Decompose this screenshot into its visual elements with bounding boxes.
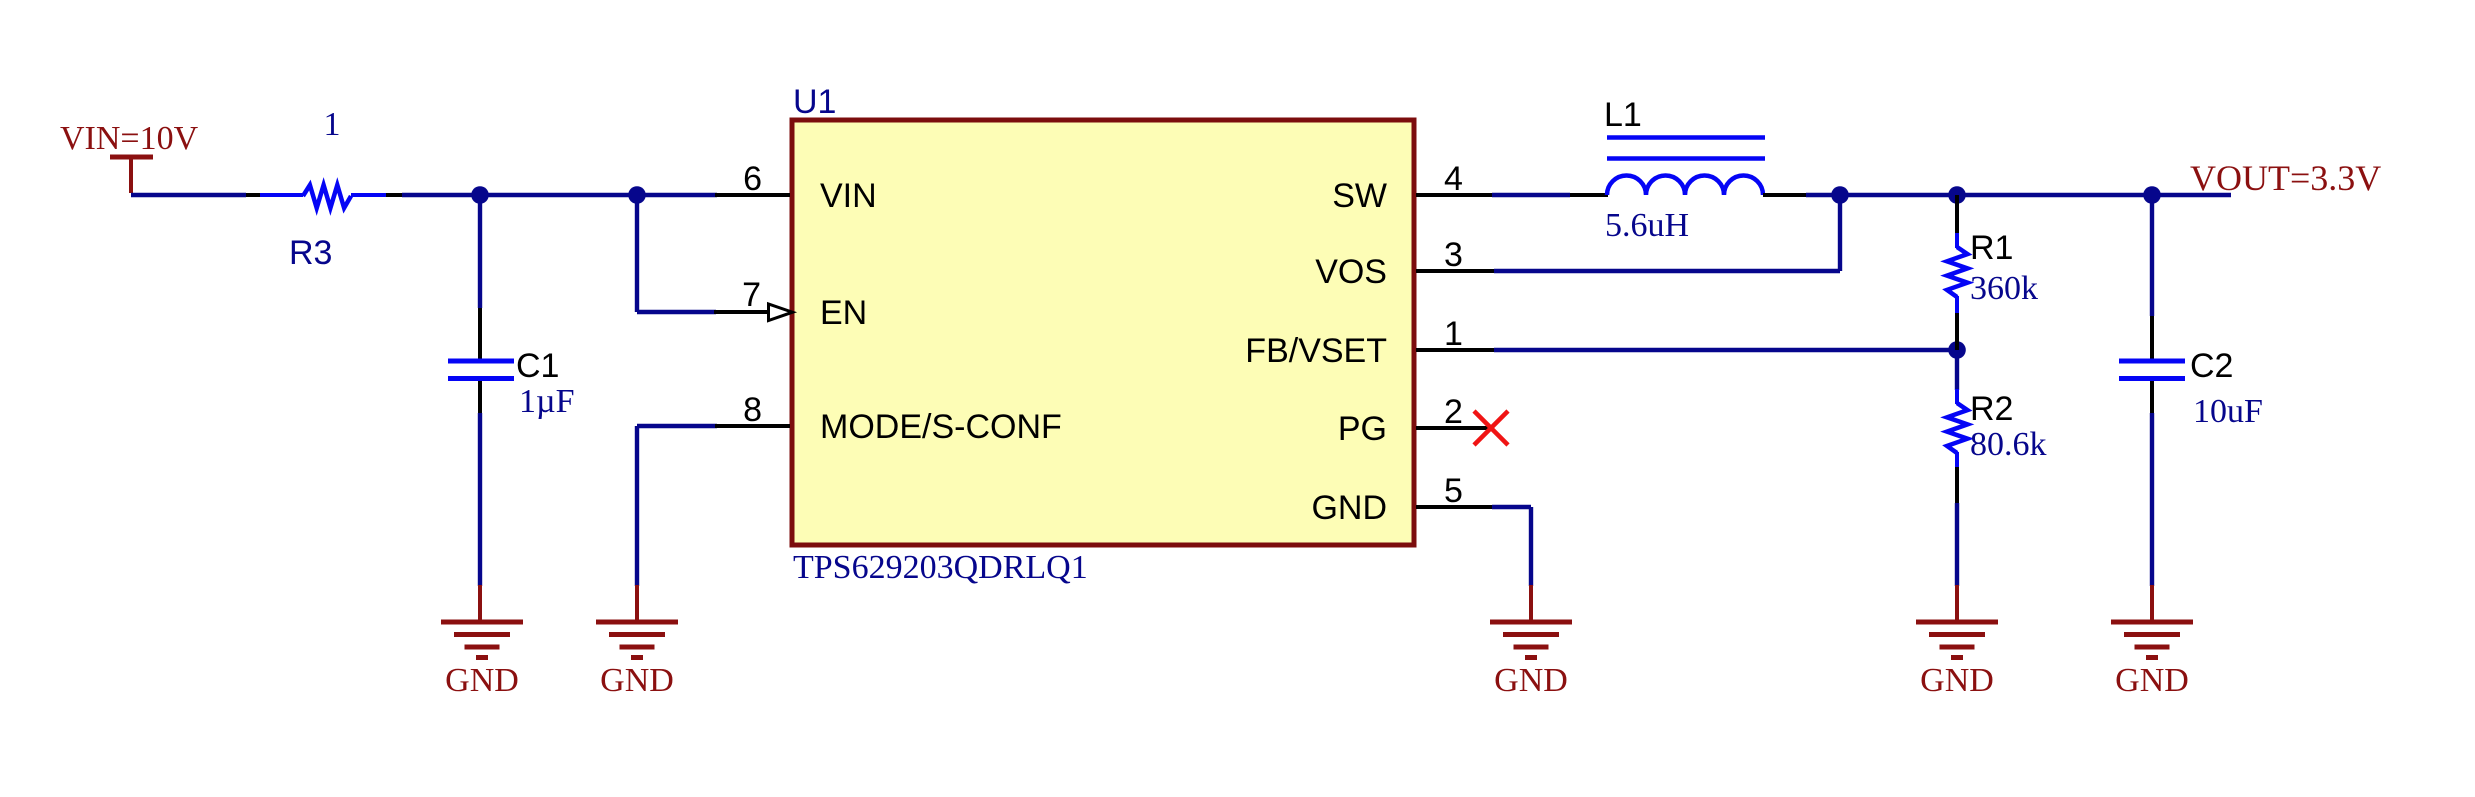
svg-text:3: 3 bbox=[1444, 236, 1463, 274]
pin 2 PG bbox=[1338, 393, 1491, 448]
svg-text:MODE/S-CONF: MODE/S-CONF bbox=[820, 408, 1062, 446]
svg-text:VIN=10V: VIN=10V bbox=[60, 120, 199, 157]
svg-text:VOUT=3.3V: VOUT=3.3V bbox=[2190, 158, 2381, 198]
svg-text:GND: GND bbox=[2115, 662, 2189, 699]
junction node SW/VOS bbox=[1831, 186, 1849, 204]
svg-text:GND: GND bbox=[1494, 662, 1568, 699]
wire MODE horizontal bbox=[637, 424, 717, 428]
svg-text:1: 1 bbox=[1444, 315, 1463, 353]
ground under C1 bbox=[441, 585, 523, 699]
wire L1 to output bbox=[1806, 193, 2231, 197]
resistor R2 bbox=[1947, 350, 1968, 503]
ground under R2 bbox=[1916, 585, 1998, 699]
svg-text:8: 8 bbox=[743, 391, 762, 429]
svg-text:FB/VSET: FB/VSET bbox=[1245, 332, 1387, 370]
svg-text:2: 2 bbox=[1444, 393, 1463, 431]
junction node at EN branch bbox=[628, 186, 646, 204]
junction node at C1 bbox=[471, 186, 489, 204]
inductor L1 bbox=[1570, 138, 1806, 196]
pin 7 EN bbox=[714, 276, 867, 332]
pin 8 MODE/S-CONF bbox=[715, 391, 1062, 446]
wire EN branch vertical bbox=[635, 195, 639, 312]
ground under MODE wire bbox=[596, 585, 678, 699]
wire C1 lower bbox=[478, 413, 482, 586]
pin 5 GND bbox=[1311, 472, 1492, 527]
wire C1 upper bbox=[478, 195, 482, 308]
pin 3 VOS bbox=[1315, 236, 1494, 291]
wire VOS horizontal bbox=[1494, 269, 1840, 273]
wire VIN rail to R3 bbox=[131, 193, 246, 197]
svg-text:R1: R1 bbox=[1970, 229, 2013, 267]
resistor R3 bbox=[246, 185, 402, 208]
svg-text:GND: GND bbox=[445, 662, 519, 699]
svg-text:GND: GND bbox=[1311, 489, 1387, 527]
svg-text:PG: PG bbox=[1338, 410, 1387, 448]
junction node FB bbox=[1948, 341, 1966, 359]
svg-text:VOS: VOS bbox=[1315, 253, 1387, 291]
wire C2 lower bbox=[2150, 413, 2154, 586]
wire MODE vertical bbox=[635, 426, 639, 586]
svg-text:L1: L1 bbox=[1604, 96, 1642, 134]
capacitor C2 bbox=[2119, 316, 2185, 413]
wire GND pin 5 bbox=[1492, 507, 1531, 586]
svg-text:10uF: 10uF bbox=[2193, 393, 2263, 430]
ground under pin 5 bbox=[1490, 585, 1572, 699]
svg-text:GND: GND bbox=[600, 662, 674, 699]
pin 6 VIN bbox=[715, 160, 877, 215]
svg-text:VIN: VIN bbox=[820, 177, 877, 215]
wire FB horizontal bbox=[1494, 348, 1957, 352]
svg-text:R3: R3 bbox=[289, 234, 332, 272]
no-connect X on PG bbox=[1474, 411, 1508, 445]
pin 1 FB/VSET bbox=[1245, 315, 1494, 370]
wire SW to L1 bbox=[1492, 193, 1570, 197]
wire VOS vertical bbox=[1838, 195, 1842, 271]
svg-text:R2: R2 bbox=[1970, 390, 2013, 428]
svg-text:80.6k: 80.6k bbox=[1970, 426, 2047, 463]
power port VIN=10V bbox=[60, 120, 199, 193]
svg-text:1: 1 bbox=[324, 106, 341, 143]
svg-text:5.6uH: 5.6uH bbox=[1605, 207, 1689, 244]
svg-text:SW: SW bbox=[1332, 177, 1387, 215]
svg-text:U1: U1 bbox=[793, 83, 836, 121]
junction node C2 top bbox=[2143, 186, 2161, 204]
wire R2 to ground bbox=[1955, 503, 1959, 586]
op IC U1 body bbox=[792, 120, 1414, 545]
pin 4 SW bbox=[1332, 160, 1494, 215]
wire R3 to VIN pin bbox=[402, 193, 717, 197]
svg-text:5: 5 bbox=[1444, 472, 1463, 510]
svg-text:6: 6 bbox=[743, 160, 762, 198]
junction node R1 top bbox=[1948, 186, 1966, 204]
svg-text:EN: EN bbox=[820, 294, 867, 332]
svg-text:360k: 360k bbox=[1970, 270, 2038, 307]
wire EN horizontal bbox=[637, 310, 716, 314]
svg-text:1µF: 1µF bbox=[519, 383, 575, 420]
ground under C2 bbox=[2111, 585, 2193, 699]
svg-text:7: 7 bbox=[742, 276, 761, 314]
wire C2 upper bbox=[2150, 195, 2154, 316]
svg-text:C1: C1 bbox=[516, 347, 559, 385]
svg-text:4: 4 bbox=[1444, 160, 1463, 198]
svg-text:C2: C2 bbox=[2190, 347, 2233, 385]
svg-text:GND: GND bbox=[1920, 662, 1994, 699]
capacitor C1 bbox=[448, 308, 514, 413]
svg-text:TPS629203QDRLQ1: TPS629203QDRLQ1 bbox=[793, 549, 1088, 586]
resistor R1 bbox=[1947, 195, 1968, 350]
